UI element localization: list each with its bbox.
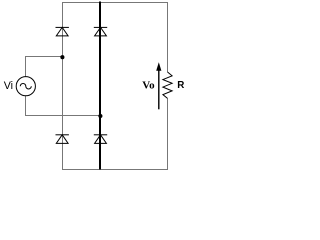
wire source top to node A <box>26 57 63 77</box>
diode D2 top-right <box>94 27 107 36</box>
diode D4 bottom-right <box>94 135 107 144</box>
AC source Vi circle <box>16 77 35 96</box>
wire top rail <box>62 2 168 4</box>
node B junction dot <box>98 114 102 118</box>
node A junction dot <box>60 55 64 59</box>
wire right rail lower <box>167 98 169 169</box>
svg-text:R: R <box>177 80 184 91</box>
wire source bottom to node B <box>26 96 101 116</box>
resistor R zigzag <box>163 72 172 98</box>
Vo arrowhead <box>156 62 161 71</box>
wire right rail upper <box>167 3 169 73</box>
wire middle branch vertical <box>99 2 101 170</box>
wire left branch vertical <box>62 3 64 170</box>
AC source sine wave <box>20 83 31 88</box>
Vo arrow shaft <box>158 67 160 110</box>
svg-text:Vi: Vi <box>4 80 13 92</box>
diode D1 top-left <box>56 27 69 36</box>
svg-text:Vo: Vo <box>142 79 155 91</box>
diode D3 bottom-left <box>56 135 69 144</box>
wire bottom rail <box>62 169 168 171</box>
